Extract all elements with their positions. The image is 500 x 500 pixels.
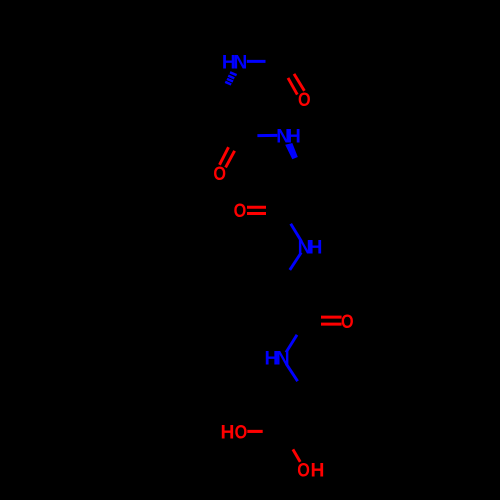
wire bond C(amide2)-N3 blue half	[291, 224, 302, 242]
wire bond CH2-OH red half	[293, 449, 300, 462]
stereo solid wedge N2 to C-alpha2 (blue half)	[285, 143, 298, 159]
bond C=O amide1, red half line b	[226, 151, 235, 168]
svg-text:O: O	[213, 163, 226, 185]
atom label N3 (NH)	[298, 237, 323, 258]
svg-text:O: O	[235, 421, 248, 443]
wire bond HO-CH red half	[247, 430, 262, 433]
bond C=O acetyl, red half line a	[288, 78, 297, 95]
svg-text:O: O	[298, 88, 311, 110]
stereo hashed wedge N1 to C-alpha1 (blue half), hash 1	[230, 72, 237, 75]
svg-text:H: H	[309, 237, 323, 258]
svg-text:H: H	[221, 422, 235, 443]
bond C=O amide2, red half line a	[247, 206, 266, 209]
wire bond N1-C(acetyl) blue half	[247, 60, 266, 63]
atom label N2 (NH)	[276, 127, 301, 148]
bond C=O amide3, red half line a	[321, 316, 342, 319]
atom label O5 (HO, secondary hydroxyl)	[221, 421, 248, 443]
svg-text:N: N	[233, 53, 247, 74]
wire bond C(amide3)-N4 blue half	[286, 335, 297, 353]
svg-text:O: O	[234, 200, 247, 222]
bond C=O amide1, red half line a	[220, 147, 229, 165]
bond C=O amide3, red half line b	[321, 323, 342, 326]
svg-text:O: O	[341, 311, 354, 333]
hash 2	[228, 76, 234, 79]
svg-text:O: O	[297, 459, 310, 481]
atom label O6 (OH, primary hydroxyl)	[297, 459, 324, 481]
bond C=O amide2, red half line b	[247, 212, 266, 215]
hash 4	[225, 82, 231, 85]
bond C=O acetyl, red half line b	[294, 74, 304, 91]
hash 3	[227, 79, 233, 82]
wire bond N3-CH2 blue half	[290, 253, 301, 270]
atom label N4 (HN)	[265, 349, 290, 370]
svg-text:H: H	[311, 461, 325, 482]
wire bond C(amide1)-N2 blue half	[257, 134, 277, 137]
wire bond N4-CH2 blue half	[286, 364, 297, 381]
atom label N1 (HN, acetamide nitrogen)	[222, 53, 247, 74]
